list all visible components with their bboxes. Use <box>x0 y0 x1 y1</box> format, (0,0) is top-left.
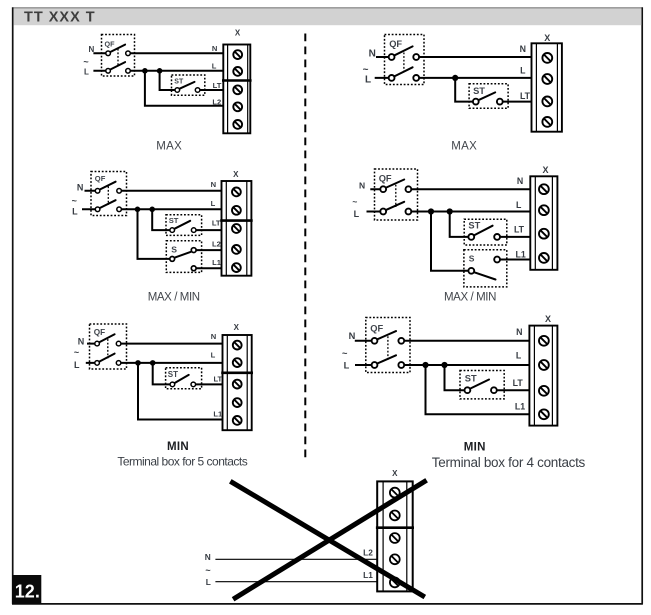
svg-text:Terminal box for 4 contacts: Terminal box for 4 contacts <box>432 455 586 470</box>
svg-text:TT XXX T: TT XXX T <box>24 10 96 26</box>
svg-text:~: ~ <box>74 348 79 358</box>
svg-text:ST: ST <box>473 86 485 96</box>
circuit breaker QF (diagram 4) pole 1 switch contact <box>393 46 413 56</box>
wire L feed to terminal L (diagram 1) <box>93 70 223 72</box>
selector switch S dashed enclosure (diagram 5) <box>464 250 507 287</box>
thermostat switch ST (diagram 6) dashed enclosure <box>460 371 504 399</box>
svg-text:MAX / MIN: MAX / MIN <box>444 291 496 303</box>
svg-text:N: N <box>211 180 216 189</box>
circuit breaker QF (diagram 5) pole 1 switch contact <box>384 180 404 189</box>
circuit breaker QF (diagram 1) pole linkage <box>117 49 119 67</box>
svg-text:L: L <box>344 361 350 371</box>
svg-text:ST: ST <box>468 221 480 231</box>
svg-text:12.: 12. <box>15 581 40 601</box>
svg-text:L1: L1 <box>212 258 222 267</box>
svg-text:L: L <box>520 66 526 76</box>
svg-text:LT: LT <box>514 225 525 235</box>
page number marker 12. <box>12 575 41 604</box>
svg-text:N: N <box>516 327 522 337</box>
svg-text:N: N <box>359 181 365 191</box>
thermostat switch ST (diagram 5) switch contact <box>473 226 493 236</box>
svg-text:MIN: MIN <box>167 441 189 453</box>
svg-text:~: ~ <box>205 565 210 575</box>
junction on L line (diagram 3) a <box>135 360 141 366</box>
circuit breaker QF (diagram 1) pole 1 switch contact <box>109 45 125 53</box>
wire branch to switch ST (diagram 4) <box>455 78 476 102</box>
svg-text:ST: ST <box>174 79 184 86</box>
svg-text:QF: QF <box>389 39 402 49</box>
thermostat switch ST (diagram 4) switch contact <box>477 92 495 100</box>
svg-text:S: S <box>469 254 475 264</box>
circuit breaker QF (diagram 5) pole 2 switch contact <box>384 202 404 211</box>
junction on L line (diagram 6) b <box>441 362 447 368</box>
wire branch to switch ST (diagram 3) <box>153 363 173 385</box>
svg-text:X: X <box>542 165 548 175</box>
circuit breaker QF (diagram 2) pole 1 switch contact <box>99 182 116 190</box>
svg-text:L: L <box>211 199 216 208</box>
svg-text:~: ~ <box>342 349 348 359</box>
svg-text:S: S <box>171 245 177 255</box>
circuit breaker QF (diagram 3) pole linkage <box>107 339 109 358</box>
wire branch to terminal L2 (diagram 1) <box>145 71 223 106</box>
svg-text:ST: ST <box>168 370 178 379</box>
wire N feed to terminal N (diagram 1) <box>93 52 223 54</box>
junction on L line (diagram 2) b <box>149 207 155 213</box>
wire branch to switch ST (diagram 6) <box>445 365 468 390</box>
wire branch to switch S (diagram 2) <box>138 209 173 259</box>
wire N feed to terminal N (diagram 3) <box>87 343 223 345</box>
wire L feed to terminal L (diagram 6) <box>355 364 529 366</box>
svg-text:L1: L1 <box>213 409 223 418</box>
wire S upper output to terminal L2 (diagram 2) <box>194 249 222 251</box>
selector switch S contacts (diagram 2) <box>173 252 191 258</box>
svg-text:N: N <box>349 331 356 341</box>
svg-text:LT: LT <box>520 91 531 101</box>
terminal block X 5 contacts (diagram 1) <box>222 45 252 134</box>
terminal block X 5 contacts (bottom diagram) <box>376 481 414 591</box>
svg-text:MAX: MAX <box>451 141 477 153</box>
svg-text:X: X <box>234 323 240 332</box>
junction on L line (diagram 2) a <box>135 207 141 213</box>
svg-text:LT: LT <box>213 81 222 90</box>
thermostat switch ST (diagram 4) dashed enclosure <box>469 84 508 109</box>
svg-text:N: N <box>211 332 216 341</box>
wire branch to switch ST (diagram 1) <box>160 71 178 90</box>
svg-text:QF: QF <box>379 173 392 183</box>
wire ST output to terminal LT (diagram 3) <box>193 383 222 385</box>
circuit breaker QF (diagram 1) dashed enclosure <box>102 35 135 77</box>
terminal block X 5 contacts (diagram 3) <box>221 335 253 430</box>
svg-text:L1: L1 <box>515 249 525 259</box>
svg-text:X: X <box>233 170 239 179</box>
svg-text:QF: QF <box>105 39 116 48</box>
circuit breaker QF (diagram 2) pole linkage <box>107 186 109 205</box>
wire N feed to terminal N (diagram 2) <box>85 190 222 192</box>
terminal block X 5 contacts (diagram 2) <box>220 181 253 276</box>
circuit breaker QF (diagram 4) pole 2 switch contact <box>393 67 413 77</box>
svg-text:N: N <box>212 44 217 53</box>
svg-text:N: N <box>205 552 211 562</box>
wire ST output to terminal LT (diagram 4) <box>500 101 532 103</box>
circuit breaker QF (diagram 6) dashed enclosure <box>366 318 410 373</box>
svg-text:MAX: MAX <box>156 140 182 152</box>
junction on L line (diagram 3) b <box>150 360 156 366</box>
svg-text:L1: L1 <box>515 402 525 412</box>
wire L to terminal L1 (bottom diagram) <box>215 581 377 583</box>
wire branch to switch S (diagram 5) <box>431 212 471 271</box>
svg-text:N: N <box>520 44 526 54</box>
svg-text:L: L <box>212 62 217 71</box>
svg-text:~: ~ <box>72 196 77 206</box>
svg-text:MAX / MIN: MAX / MIN <box>148 291 200 303</box>
circuit breaker QF (diagram 3) dashed enclosure <box>90 324 127 369</box>
wire S output to terminal L1 (diagram 5) <box>497 259 530 261</box>
prohibition cross stroke 1 <box>230 481 424 597</box>
header bar <box>14 7 642 25</box>
wire L feed to terminal L (diagram 2) <box>82 208 222 210</box>
wire L feed to terminal L (diagram 5) <box>367 211 531 213</box>
thermostat switch ST (diagram 1) switch contact <box>179 82 195 89</box>
svg-text:QF: QF <box>370 323 383 333</box>
wire S lower output to terminal L1 (diagram 2) <box>194 267 222 269</box>
svg-text:LT: LT <box>513 378 524 388</box>
svg-text:N: N <box>369 48 376 59</box>
junction on L line (diagram 5) a <box>428 208 434 214</box>
svg-text:L: L <box>516 200 522 210</box>
wire ST output to terminal LT (diagram 5) <box>497 236 530 238</box>
circuit breaker QF (diagram 3) pole 2 switch contact <box>98 354 114 363</box>
svg-text:L: L <box>206 577 211 587</box>
selector switch S dashed enclosure (diagram 2) <box>166 241 201 273</box>
svg-text:ST: ST <box>465 373 477 383</box>
svg-text:L: L <box>354 209 360 219</box>
svg-text:~: ~ <box>352 196 357 206</box>
terminal block X 4 contacts (diagram 5) <box>530 176 557 269</box>
junction on L line (diagram 5) b <box>447 208 453 214</box>
svg-text:MIN: MIN <box>464 441 486 453</box>
wire L feed to terminal L (diagram 3) <box>86 362 223 364</box>
thermostat switch ST (diagram 3) dashed enclosure <box>166 368 202 389</box>
circuit breaker QF (diagram 2) dashed enclosure <box>91 172 127 216</box>
wire branch to terminal L1 (diagram 6) <box>426 365 530 414</box>
svg-text:Terminal box for 5 contacts: Terminal box for 5 contacts <box>117 454 247 468</box>
junction on L line (diagram 4) <box>452 75 458 81</box>
wire branch to terminal L1 (diagram 3) <box>138 363 223 420</box>
thermostat switch ST (diagram 6) switch contact <box>469 380 489 390</box>
circuit breaker QF (diagram 6) pole linkage <box>387 336 389 360</box>
circuit breaker QF (diagram 5) pole linkage <box>395 185 397 207</box>
svg-text:L1: L1 <box>363 570 373 580</box>
terminal block X 4 contacts (diagram 6) <box>529 326 557 426</box>
wire N feed to terminal N (diagram 4) <box>376 56 532 58</box>
wire ST output to terminal LT (diagram 6) <box>494 389 530 391</box>
thermostat switch ST (diagram 2) switch contact <box>173 221 190 230</box>
svg-text:N: N <box>89 45 95 54</box>
svg-text:L: L <box>516 351 522 361</box>
wire N to terminal L2 (bottom diagram) <box>215 558 377 560</box>
svg-text:X: X <box>545 314 551 324</box>
svg-text:QF: QF <box>95 174 106 183</box>
svg-text:QF: QF <box>94 328 105 337</box>
thermostat switch ST (diagram 3) switch contact <box>174 375 189 384</box>
wire N feed to terminal N (diagram 6) <box>355 340 530 342</box>
wire L feed to terminal L (diagram 4) <box>375 77 532 79</box>
svg-text:L: L <box>365 74 371 85</box>
thermostat switch ST (diagram 2) dashed enclosure <box>166 215 202 236</box>
junction on L line (diagram 6) a <box>422 362 428 368</box>
svg-text:L2: L2 <box>212 239 221 248</box>
circuit breaker QF (diagram 2) pole 2 switch contact <box>99 200 116 208</box>
circuit breaker QF (diagram 5) dashed enclosure <box>375 169 418 220</box>
thermostat switch ST (diagram 5) dashed enclosure <box>464 219 507 245</box>
junction on L line (diagram 1) a <box>142 68 148 74</box>
circuit breaker QF (diagram 6) pole 2 switch contact <box>376 355 396 364</box>
circuit breaker QF (diagram 3) pole 1 switch contact <box>98 334 114 343</box>
svg-text:X: X <box>392 469 398 478</box>
svg-text:L: L <box>74 360 80 370</box>
circuit breaker QF (diagram 6) pole 1 switch contact <box>376 331 396 340</box>
svg-text:N: N <box>78 337 85 347</box>
dashed column divider <box>304 34 306 461</box>
junction on L line (diagram 1) b <box>157 68 163 74</box>
wire ST output to terminal LT (diagram 2) <box>194 229 222 231</box>
wire branch to switch ST (diagram 2) <box>152 209 172 230</box>
svg-text:X: X <box>544 33 550 43</box>
svg-text:~: ~ <box>83 57 88 67</box>
circuit breaker QF (diagram 4) pole linkage <box>403 53 405 74</box>
thermostat switch ST (diagram 1) dashed enclosure <box>172 75 205 95</box>
wire branch to switch ST (diagram 5) <box>450 212 472 237</box>
svg-text:LT: LT <box>213 374 222 383</box>
svg-text:N: N <box>517 176 523 186</box>
terminal block X 4 contacts (diagram 4) <box>532 43 562 131</box>
wire N feed to terminal N (diagram 5) <box>370 188 530 190</box>
svg-text:X: X <box>235 28 241 37</box>
prohibition cross stroke 2 <box>233 480 427 599</box>
svg-text:L: L <box>84 67 89 76</box>
wire ST output to terminal LT (diagram 1) <box>198 89 224 91</box>
circuit breaker QF (diagram 4) dashed enclosure <box>385 35 425 85</box>
selector switch S contacts (diagram 5) <box>473 272 496 280</box>
svg-text:ST: ST <box>169 216 179 225</box>
svg-text:LT: LT <box>212 219 221 228</box>
svg-text:N: N <box>77 183 84 193</box>
svg-text:L: L <box>72 206 78 216</box>
circuit breaker QF (diagram 1) pole 2 switch contact <box>109 62 125 70</box>
svg-text:L2: L2 <box>363 547 373 557</box>
svg-text:L: L <box>211 351 216 360</box>
svg-text:L2: L2 <box>212 98 221 107</box>
